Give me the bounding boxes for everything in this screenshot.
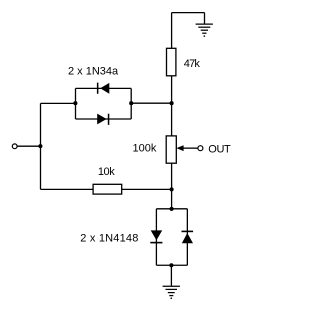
ground GND1 top [196,24,213,37]
diode D2 (points right, bottom branch) [97,114,109,125]
potentiometer R3 100k body [166,136,176,163]
ground GND2 bottom [163,286,180,299]
terminal OUT circle [198,146,203,151]
wire main vertical 47k to pot [171,76,173,136]
wiper arrow of pot [183,147,198,149]
wire bottom diode box frame [156,209,187,265]
node bottom box bottom [169,263,173,267]
wire left node to input riser [41,102,76,104]
wire diode box frame [76,88,132,119]
node input junction [38,144,42,148]
wire ground stub top [204,13,206,24]
svg-text:OUT: OUT [208,144,231,156]
wire top horizontal to ground [172,12,205,14]
svg-text:2 x 1N4148: 2 x 1N4148 [80,233,138,245]
svg-text:100k: 100k [133,143,157,155]
diode D4 (points up, right branch) [182,231,194,244]
wire main pot to bottom box [171,163,173,209]
node junction 10k/main [170,187,174,191]
diode D1 (points left, top branch) [97,83,109,94]
node bottom box top [170,207,174,211]
node diode box right [129,101,133,105]
node junction main/diode-box wire [170,101,174,105]
wire ground stub bottom [170,265,172,286]
wire riser down to 10k branch [40,146,42,189]
diode D3 (points down, left branch) [150,230,162,243]
terminal input circle [12,144,17,149]
svg-text:47k: 47k [184,58,201,70]
svg-text:2 x 1N34a: 2 x 1N34a [68,65,119,77]
wire input to junction [17,145,40,147]
node diode box left [73,101,77,105]
wire 10k left lead [41,188,94,190]
resistor R1 47k [167,48,176,76]
wire main vertical top lead of 47k [171,13,173,49]
wire riser up to diode box [40,103,42,146]
resistor R2 10k [93,184,122,194]
svg-text:10k: 10k [98,166,115,178]
wire diode box right node to main [131,102,171,104]
wire 10k right lead [122,188,172,190]
